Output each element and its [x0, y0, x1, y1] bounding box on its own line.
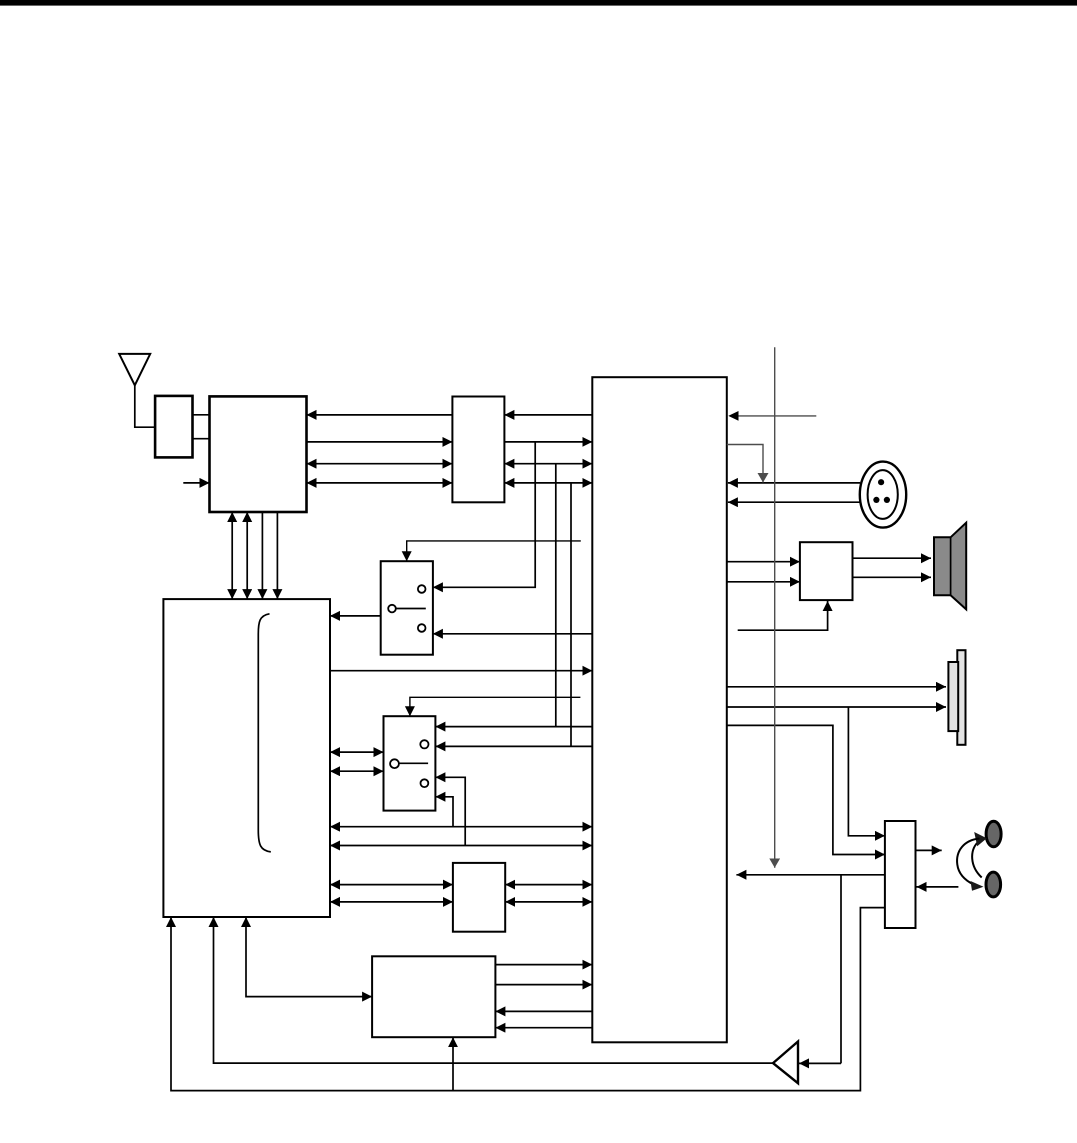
audio switch 1 — [381, 561, 433, 655]
wire display 1 — [727, 686, 946, 688]
earbud wire top — [972, 832, 987, 878]
wire baseband-memory b — [330, 901, 453, 903]
wire switch1 to baseband — [330, 615, 381, 617]
power block — [372, 956, 495, 1037]
wire bus tap to switch2 c — [435, 777, 465, 845]
wire power to ASIC 1 — [495, 964, 592, 966]
wire ASIC to power 1 — [495, 1010, 592, 1012]
antenna — [119, 354, 155, 427]
wire row1 RF-IF — [307, 414, 453, 416]
wire bus tap to switch2 d — [435, 797, 453, 827]
wire baseband to ASIC — [330, 670, 592, 672]
wire baseband-memory a — [330, 884, 453, 886]
wire bottom to power — [452, 1037, 454, 1090]
wire headset drop — [840, 875, 842, 1064]
wire ASIC to amp 1 — [727, 561, 800, 563]
wire RF-baseband v3 — [261, 512, 263, 599]
audio amp box — [800, 542, 853, 600]
wire ASIC to switch2 a — [435, 726, 592, 728]
baseband inner bracket — [258, 614, 271, 852]
wire row2 RF-IF — [307, 441, 453, 443]
wire bus baseband-ASIC a — [330, 826, 592, 828]
antenna switch box — [155, 396, 192, 458]
wire power to ASIC 2 — [495, 984, 592, 986]
wire switch2 select — [410, 697, 581, 716]
headset connector box — [885, 821, 916, 928]
wire row1 IF-ASIC — [504, 414, 592, 416]
earbud wire bottom — [957, 839, 983, 891]
amplifier triangle — [773, 1042, 798, 1084]
audio switch 2 — [384, 716, 436, 810]
earbud top — [986, 821, 1001, 847]
wire ASIC to switch2 b — [435, 745, 592, 747]
wire amp to speaker 1 — [853, 557, 932, 559]
wire ASIC to switch1 lower — [433, 633, 592, 635]
wire memory-ASIC a — [505, 884, 592, 886]
wire ant switch link1 — [193, 414, 210, 416]
wire bus baseband-ASIC b — [330, 845, 592, 847]
wire baseband-switch2 a — [330, 751, 384, 753]
wire row3 RF-IF — [307, 463, 453, 465]
wire amp output line — [214, 917, 774, 1063]
display — [948, 650, 965, 745]
wire row2 IF-ASIC — [504, 441, 592, 443]
wire RF-baseband v2 — [246, 512, 248, 599]
wire drop V2 — [555, 464, 557, 727]
wire bottom loop long — [171, 908, 885, 1091]
wire drop V1 to switch1 — [433, 442, 535, 587]
wire RF-baseband v1 — [231, 512, 233, 599]
RF interface box — [452, 397, 504, 503]
wire mic 1 — [728, 482, 860, 484]
wire ant switch link2 — [193, 438, 210, 440]
wire ASIC to power 2 — [495, 1027, 592, 1029]
earbud bottom — [986, 872, 1001, 897]
wire drop V3 — [570, 483, 572, 747]
wire headset out — [916, 849, 942, 851]
system ASIC block — [592, 377, 727, 1042]
wire row4 IF-ASIC — [504, 482, 592, 484]
header bar — [0, 0, 1077, 6]
wire headset in — [917, 886, 959, 888]
RF block — [210, 396, 307, 512]
wire row3 IF-ASIC — [504, 463, 592, 465]
speaker — [934, 523, 966, 610]
microphone — [860, 462, 906, 528]
wire baseband to power — [246, 917, 372, 997]
memory box — [453, 863, 505, 932]
wire display branch to headset — [848, 707, 885, 836]
gray elbow arrow — [727, 445, 763, 483]
wire RF-baseband v4 — [276, 512, 278, 599]
wire amp to speaker 2 — [853, 576, 932, 578]
gray control line vertical — [774, 347, 776, 868]
wire amp enable — [738, 601, 828, 630]
baseband block — [163, 599, 330, 917]
wire memory-ASIC b — [505, 901, 592, 903]
wire display 2 — [727, 706, 946, 708]
wire ASIC to headset — [727, 725, 885, 854]
gray control line horizontal — [728, 411, 816, 421]
wire switch1 select — [407, 541, 581, 561]
wire baseband-switch2 b — [330, 770, 384, 772]
wire ASIC to amp 2 — [727, 581, 800, 583]
wire headset return — [736, 874, 885, 876]
wire row4 RF-IF — [307, 482, 453, 484]
wire RF input stub — [183, 482, 209, 484]
wire mic 2 — [728, 501, 860, 503]
wire amp input — [799, 1062, 841, 1064]
